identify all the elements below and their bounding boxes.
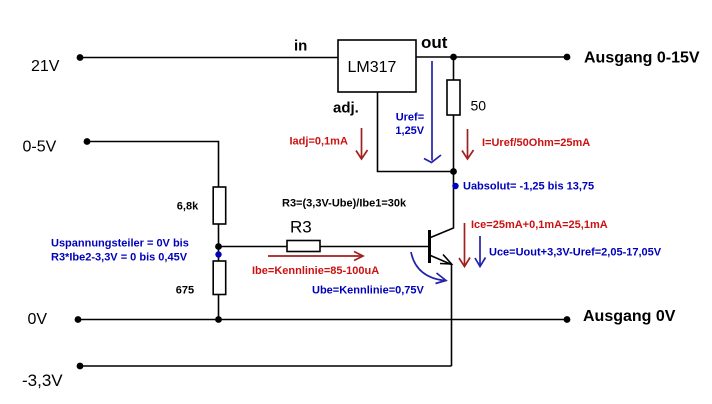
svg-text:LM317: LM317 bbox=[348, 59, 397, 76]
svg-text:1,25V: 1,25V bbox=[395, 125, 424, 137]
svg-text:Uspannungsteiler = 0V bis: Uspannungsteiler = 0V bis bbox=[51, 237, 189, 249]
svg-text:Uref=: Uref= bbox=[396, 111, 424, 123]
svg-text:0-5V: 0-5V bbox=[23, 139, 57, 156]
svg-text:in: in bbox=[294, 37, 307, 54]
svg-text:out: out bbox=[421, 33, 448, 52]
svg-text:Uce=Uout+3,3V-Uref=2,05-17,05V: Uce=Uout+3,3V-Uref=2,05-17,05V bbox=[489, 247, 662, 259]
svg-text:R3*Ibe2-3,3V = 0 bis 0,45V: R3*Ibe2-3,3V = 0 bis 0,45V bbox=[51, 252, 188, 264]
svg-text:R3: R3 bbox=[290, 217, 312, 236]
svg-text:I=Uref/50Ohm=25mA: I=Uref/50Ohm=25mA bbox=[482, 137, 590, 149]
svg-text:21V: 21V bbox=[31, 58, 60, 75]
svg-text:Ausgang 0V: Ausgang 0V bbox=[583, 308, 676, 325]
svg-text:Ausgang 0-15V: Ausgang 0-15V bbox=[584, 50, 700, 67]
svg-text:Uabsolut= -1,25 bis 13,75: Uabsolut= -1,25 bis 13,75 bbox=[463, 181, 594, 193]
svg-text:50: 50 bbox=[471, 98, 487, 114]
svg-text:Ice=25mA+0,1mA=25,1mA: Ice=25mA+0,1mA=25,1mA bbox=[471, 219, 608, 231]
svg-text:Ibe=Kennlinie=85-100uA: Ibe=Kennlinie=85-100uA bbox=[252, 265, 379, 277]
svg-text:-3,3V: -3,3V bbox=[22, 371, 63, 390]
svg-text:0V: 0V bbox=[28, 311, 48, 328]
svg-text:adj.: adj. bbox=[333, 99, 359, 116]
svg-text:Iadj=0,1mA: Iadj=0,1mA bbox=[290, 136, 348, 148]
svg-text:R3=(3,3V-Ube)/Ibe1=30k: R3=(3,3V-Ube)/Ibe1=30k bbox=[282, 198, 407, 210]
svg-text:6,8k: 6,8k bbox=[177, 201, 199, 213]
svg-text:675: 675 bbox=[176, 285, 194, 297]
svg-text:Ube=Kennlinie=0,75V: Ube=Kennlinie=0,75V bbox=[312, 285, 425, 297]
